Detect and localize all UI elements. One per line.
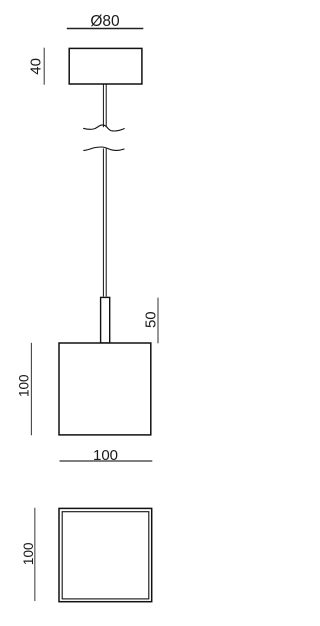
- svg-text:Ø80: Ø80: [90, 13, 120, 30]
- svg-text:40: 40: [28, 58, 45, 75]
- svg-text:100: 100: [21, 543, 36, 566]
- svg-text:100: 100: [16, 374, 31, 397]
- svg-text:50: 50: [143, 311, 160, 328]
